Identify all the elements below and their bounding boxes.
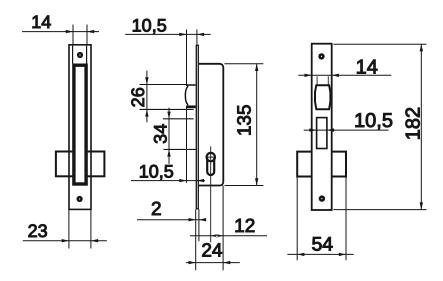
dim 54 arrows: [297, 253, 346, 256]
svg-text:135: 135: [235, 104, 256, 136]
dim 2 line: [137, 219, 204, 221]
svg-text:14: 14: [31, 12, 51, 32]
faceplate front: [312, 44, 332, 210]
plate outline: [69, 45, 91, 210]
dim 14 right arrows: [305, 74, 339, 77]
white channel knockout over box: [72, 149, 87, 178]
dim 182 extension lines: [334, 44, 427, 209]
svg-text:2: 2: [151, 199, 162, 220]
svg-text:10,5: 10,5: [139, 162, 174, 182]
svg-text:10,5: 10,5: [132, 15, 167, 35]
svg-text:34: 34: [151, 124, 171, 144]
channel thin lines top section: [73, 46, 87, 64]
dim 23 line: [23, 240, 107, 242]
svg-text:182: 182: [403, 107, 425, 140]
lock case left part: [297, 152, 312, 177]
latch bottom extension line: [140, 108, 194, 110]
dim 24 arrows: [189, 261, 231, 264]
screw hole top right: [318, 53, 324, 59]
dim 10,5 lower line: [131, 180, 205, 182]
slot rectangle: [317, 118, 327, 149]
dim 34 line: [168, 108, 170, 164]
dim 24 line: [186, 262, 240, 264]
line y149.4 (34 bottom boundary): [164, 148, 197, 150]
cylinder circle: [207, 153, 215, 161]
screw hole bottom: [77, 196, 83, 202]
dim 12 extension line: [222, 186, 224, 271]
svg-text:26: 26: [128, 87, 148, 107]
dim 26 arrows: [145, 77, 148, 116]
dim 54 extension lines: [297, 177, 346, 261]
svg-text:12: 12: [234, 216, 255, 237]
dim 14 extension lines: [73, 25, 87, 45]
cylinder centerline: [210, 146, 212, 242]
dim 10,5 lower extension line: [186, 106, 188, 183]
dim 135 extension lines: [225, 64, 264, 186]
dim 54 line: [287, 253, 353, 255]
channel strip (thick inner rectangle): [74, 65, 86, 184]
cylinder stem: [207, 158, 214, 175]
svg-text:10,5: 10,5: [354, 110, 393, 132]
dim 10,5 top line: [125, 33, 211, 35]
dim 12 arrows: [211, 234, 223, 237]
lock case right part: [332, 152, 346, 177]
svg-text:54: 54: [311, 233, 333, 255]
latch bolt front: [315, 85, 330, 109]
screw hole bottom right: [319, 195, 325, 201]
dim 34 arrows: [167, 112, 170, 157]
dim 10,5 right line: [304, 129, 389, 131]
dim 2 arrows: [189, 218, 207, 221]
latch bolt side profile: [185, 85, 195, 105]
dim 14 right line: [298, 74, 391, 76]
faceplate edge-on: [196, 45, 198, 209]
dim 14 line: [22, 31, 99, 33]
dim 23 arrows: [62, 239, 98, 242]
dim 10,5 right arrows: [309, 128, 334, 131]
dim 2 extension lines: [196, 209, 199, 270]
dim 10,5 lower arrows: [179, 179, 204, 182]
latch guide thin lines: [317, 76, 328, 85]
cylinder cross horizontal: [206, 156, 216, 158]
dim 182 arrows: [420, 44, 423, 209]
dim 10,5 top arrows: [179, 33, 204, 36]
line y118.8 (34 top boundary): [163, 118, 194, 120]
dim 182 line: [420, 44, 422, 209]
dim 135 line: [256, 64, 258, 186]
screw hole top: [77, 52, 83, 58]
latch top extension line: [140, 84, 188, 86]
dim 23 extension lines: [69, 209, 91, 248]
svg-text:23: 23: [28, 221, 48, 241]
dim 135 arrows: [255, 64, 258, 186]
dim 14 arrows: [66, 30, 94, 33]
dim 26 line: [146, 71, 148, 123]
dim 12 line: [190, 235, 267, 237]
dim 10,5 top extension lines: [187, 30, 197, 87]
lock body side: [199, 64, 223, 186]
svg-text:24: 24: [201, 241, 223, 262]
strike box (behind plate): [56, 152, 105, 177]
latch bolt bottom bar: [186, 105, 195, 108]
